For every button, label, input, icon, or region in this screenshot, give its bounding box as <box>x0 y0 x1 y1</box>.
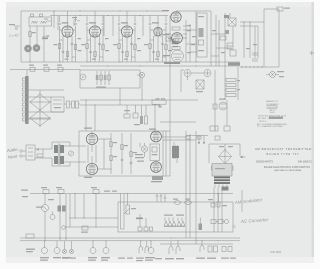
neutralizing capacitor <box>172 26 187 50</box>
relay K3 <box>50 212 55 220</box>
resistor bank <box>96 71 111 88</box>
thermal element 1 <box>169 241 173 254</box>
bridge rectifier CR3 <box>219 144 234 164</box>
fuse F3 <box>57 65 63 72</box>
thermal element 2 <box>176 241 180 254</box>
feedback tube V11 <box>141 143 147 157</box>
input attenuator box <box>26 145 35 160</box>
tube V10 807 <box>84 156 98 178</box>
crystal oscillator box Y1 <box>29 14 52 26</box>
meter M2 <box>184 70 191 77</box>
blower motor B1 <box>36 194 54 241</box>
control box <box>118 194 233 233</box>
wire low bus <box>10 69 80 70</box>
line stubs <box>156 194 167 203</box>
thermal hook b <box>145 241 149 253</box>
contact block dark <box>58 206 66 212</box>
bridge rectifier CR1 <box>29 93 50 110</box>
thermal element 3 <box>200 241 204 252</box>
antenna loop rect <box>264 7 290 67</box>
wire <box>209 144 240 232</box>
relay K2 <box>224 126 230 131</box>
wire <box>161 131 196 244</box>
trimmer knob 1 <box>25 45 32 52</box>
relay K6 <box>90 241 96 254</box>
legend block <box>257 100 288 128</box>
meter M3 <box>204 70 211 77</box>
handwritten notes <box>6 33 269 229</box>
wire <box>244 22 258 58</box>
mod transformer T2 winding <box>172 142 179 163</box>
resistor R32 <box>110 156 117 161</box>
wire ground bus <box>21 61 240 66</box>
rectifier X box <box>228 18 236 26</box>
scan grain overlay <box>0 0 1 1</box>
title block text <box>255 147 312 172</box>
relay K1 <box>210 126 218 131</box>
wire <box>80 78 198 131</box>
resistor R33 <box>121 145 128 150</box>
capacitor C13 <box>230 50 236 56</box>
bus left rect <box>26 234 34 238</box>
pa links <box>186 25 197 52</box>
modulator box <box>79 131 170 176</box>
lamp DS4 <box>63 241 67 254</box>
wire <box>64 103 80 105</box>
plus mark right margin <box>310 51 315 55</box>
capacitor C32 <box>197 136 201 139</box>
contactor contacts <box>211 220 229 224</box>
wire <box>176 11 196 62</box>
breaker block <box>208 246 232 252</box>
relay box K9 <box>152 99 166 108</box>
wire left rail <box>20 11 22 62</box>
fuse F5 <box>185 199 192 205</box>
potentiometer R40 <box>124 194 136 215</box>
wire right drop <box>241 190 243 212</box>
output stem dark <box>151 176 163 182</box>
wire <box>104 131 166 176</box>
arrow marks <box>198 142 205 145</box>
date stamp <box>270 250 282 254</box>
resistor R43 <box>150 227 153 231</box>
capacitor C31 <box>186 136 190 139</box>
wire <box>28 90 64 119</box>
wire mid links <box>120 88 196 131</box>
input transformer T1 <box>52 142 70 166</box>
filter block dark <box>228 63 240 66</box>
capacitor C14 bank <box>246 44 258 61</box>
lamp DS3 <box>62 226 66 230</box>
wire <box>140 214 146 227</box>
resistor R31 <box>110 142 117 147</box>
power transformer T3 <box>212 164 232 188</box>
resistor stack <box>226 79 240 97</box>
plate choke smudges <box>187 30 195 53</box>
interstage coil L1 <box>72 17 80 26</box>
interstage cluster <box>165 16 178 63</box>
resistor R1 <box>29 32 36 37</box>
capacitor C1 <box>43 36 50 38</box>
switch S3 <box>91 187 99 194</box>
tube V4 807 stage <box>144 16 172 63</box>
fuse F2 <box>43 65 49 72</box>
wire <box>98 133 131 174</box>
ballast resistor striped <box>199 218 203 231</box>
resistor R41 <box>138 227 142 231</box>
resistor R30 <box>37 154 43 157</box>
wire <box>170 62 238 131</box>
wire control bus A <box>30 193 233 194</box>
meter rectifier box <box>51 97 64 112</box>
wire top feed <box>186 136 208 145</box>
wire second bus <box>50 15 168 16</box>
switch S1 <box>41 187 49 194</box>
pilot lamp DS2 <box>266 71 284 78</box>
tube V12 807 <box>149 129 162 142</box>
wire <box>54 11 143 36</box>
thermal hook a <box>139 241 143 253</box>
resistor R34 <box>130 152 137 157</box>
switch S2 <box>56 187 64 194</box>
bias cluster <box>124 105 148 125</box>
wire HV rails <box>196 11 225 66</box>
relay K7 <box>103 241 109 254</box>
wire <box>21 190 118 241</box>
capacitor C30 <box>37 148 39 151</box>
title arrow <box>240 156 246 158</box>
wire <box>215 100 227 131</box>
hv links <box>211 13 233 56</box>
resistor R14 <box>220 36 226 40</box>
hv side rects <box>212 136 234 170</box>
tube V7 final <box>163 50 184 64</box>
component smudge row <box>104 191 117 192</box>
tube V1 6AU6 stage <box>54 11 82 62</box>
fuse F1 <box>29 65 35 72</box>
meter panel box <box>80 70 140 88</box>
trimmer knob 2 <box>33 45 40 52</box>
bridge rectifier CR2 <box>29 110 50 127</box>
pilot lamp DS1 <box>137 72 145 77</box>
crystal oven box <box>197 13 207 57</box>
rectifier X box 2 <box>196 80 204 92</box>
tube V2 6CL6 stage <box>81 11 109 62</box>
antenna stub <box>9 24 20 30</box>
wire <box>240 21 264 26</box>
wire <box>30 26 44 62</box>
resistor R13 <box>225 30 229 34</box>
terminal rect <box>81 226 88 233</box>
capacitor C12 <box>227 43 233 49</box>
relay K4 <box>42 241 48 254</box>
relay K8 <box>148 241 154 254</box>
comp rects top <box>208 194 227 208</box>
bias box <box>150 144 160 161</box>
meter M4 <box>69 151 74 156</box>
ticked bus <box>240 66 279 68</box>
relay K5 <box>54 241 60 254</box>
meter M1 <box>80 74 86 80</box>
regulator tube V8 <box>213 99 227 111</box>
bottom labels <box>26 249 236 262</box>
variac taps <box>164 215 185 227</box>
hv dark stub <box>222 187 229 191</box>
tube V5 top <box>162 10 182 22</box>
handdrawn audio terminals <box>20 150 26 157</box>
capacitor C20 <box>67 101 70 108</box>
wire top bus <box>21 10 168 11</box>
capacitor C21 <box>72 101 75 108</box>
capacitor C11 dark <box>224 15 229 18</box>
wire control bus B <box>20 237 240 244</box>
resistor R42 <box>144 227 148 231</box>
lamp DS5 <box>70 241 74 254</box>
tube V6 driver <box>162 33 183 44</box>
label 465 <box>136 218 143 220</box>
capacitor C33 <box>121 159 133 164</box>
wire <box>35 149 52 158</box>
tube V3 5763 stage <box>113 11 141 62</box>
fuse F4 <box>173 199 181 205</box>
terminal strip TB1 <box>22 70 28 124</box>
tube V9 807 <box>84 128 98 164</box>
label 464 <box>42 38 48 40</box>
ant tune smudges <box>135 154 144 162</box>
capacitor C22 <box>76 101 79 108</box>
wire <box>64 142 86 166</box>
tube V13 807 <box>150 162 162 173</box>
